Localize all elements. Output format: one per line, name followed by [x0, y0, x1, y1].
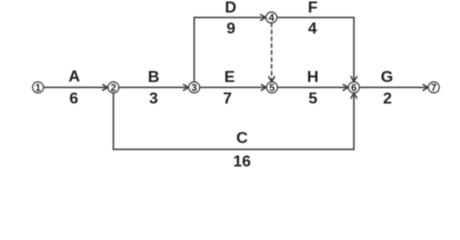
node 5: [267, 82, 278, 93]
svg-text:3: 3: [149, 90, 158, 107]
node 6: [348, 82, 359, 93]
svg-text:D: D: [225, 0, 237, 17]
node 4: [266, 12, 277, 23]
wire A (1 to 2): [44, 86, 108, 88]
svg-text:5: 5: [309, 90, 318, 107]
arrowhead into node 5: [261, 85, 266, 91]
svg-text:4: 4: [269, 13, 275, 24]
svg-text:6: 6: [351, 83, 357, 94]
arrowhead into node 3: [184, 85, 189, 91]
dashed dummy wire (4 down to 5): [271, 23, 273, 81]
svg-text:B: B: [148, 69, 160, 86]
svg-text:3: 3: [191, 83, 197, 94]
svg-text:2: 2: [383, 90, 392, 107]
wire H (5 to 6): [278, 86, 349, 88]
svg-text:4: 4: [308, 21, 317, 38]
node 3: [189, 82, 200, 93]
node 2: [108, 82, 119, 93]
svg-text:6: 6: [69, 90, 78, 107]
svg-text:16: 16: [233, 153, 251, 170]
svg-text:C: C: [236, 130, 248, 147]
svg-text:7: 7: [223, 90, 232, 107]
svg-text:H: H: [307, 69, 319, 86]
svg-text:F: F: [308, 0, 318, 17]
svg-text:2: 2: [111, 83, 117, 94]
svg-text:9: 9: [227, 21, 236, 38]
wire F (4 right and down to 6): [277, 18, 354, 82]
arrowhead into node 6 from bottom: [351, 93, 357, 98]
svg-text:E: E: [224, 69, 235, 86]
arrowhead into node 5 from top (dummy): [269, 77, 275, 82]
wire G (6 to 7): [360, 86, 429, 88]
arrowhead into node 4: [261, 15, 266, 21]
arrowhead into node 2: [103, 85, 108, 91]
wire C (2 down, right, up to 6): [113, 93, 354, 149]
wire E (3 to 5): [200, 86, 266, 88]
node 1: [33, 82, 44, 93]
wire D (3 up and right to 4): [194, 18, 266, 82]
svg-text:1: 1: [35, 83, 41, 94]
svg-text:5: 5: [269, 83, 275, 94]
wire B (2 to 3): [119, 86, 188, 88]
arrowhead into node 6: [343, 85, 348, 91]
arrowhead into node 7: [423, 85, 428, 91]
svg-text:7: 7: [431, 83, 437, 94]
arrowhead into node 6 from top: [351, 77, 357, 82]
node 7: [428, 82, 439, 93]
svg-text:A: A: [69, 69, 81, 86]
svg-text:G: G: [381, 69, 393, 86]
